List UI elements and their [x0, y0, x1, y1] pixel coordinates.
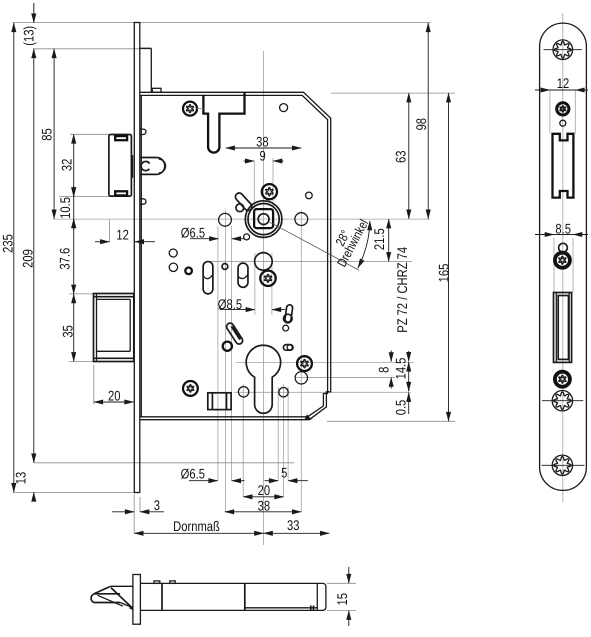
svg-text:8.5: 8.5 — [555, 221, 571, 237]
svg-text:32: 32 — [59, 159, 75, 172]
svg-text:98: 98 — [413, 118, 429, 131]
svg-text:37.6: 37.6 — [57, 248, 73, 270]
svg-text:20: 20 — [258, 482, 271, 498]
svg-text:14.5: 14.5 — [393, 357, 409, 379]
svg-text:(13): (13) — [20, 26, 36, 46]
svg-text:35: 35 — [60, 325, 76, 338]
svg-text:12: 12 — [557, 75, 570, 91]
svg-text:209: 209 — [20, 249, 36, 268]
svg-text:38: 38 — [258, 498, 271, 514]
svg-text:3: 3 — [154, 497, 160, 513]
svg-text:13: 13 — [12, 472, 28, 485]
svg-text:235: 235 — [0, 234, 16, 253]
svg-text:12: 12 — [116, 226, 129, 242]
svg-text:63: 63 — [393, 150, 409, 163]
svg-text:Ø6.5: Ø6.5 — [181, 466, 205, 482]
svg-text:10.5: 10.5 — [57, 197, 73, 219]
svg-text:0.5: 0.5 — [392, 400, 408, 416]
svg-text:8: 8 — [376, 367, 392, 373]
svg-text:5: 5 — [281, 465, 287, 481]
svg-text:33: 33 — [287, 517, 300, 533]
svg-text:9: 9 — [259, 147, 265, 163]
svg-text:Ø6.5: Ø6.5 — [181, 225, 205, 241]
svg-text:15: 15 — [334, 593, 350, 606]
svg-text:21.5: 21.5 — [371, 228, 387, 250]
svg-text:PZ 72 / CHRZ 74: PZ 72 / CHRZ 74 — [394, 247, 410, 333]
svg-text:Dornmaß: Dornmaß — [173, 518, 220, 534]
svg-text:85: 85 — [39, 128, 55, 141]
svg-text:165: 165 — [435, 263, 451, 282]
svg-text:20: 20 — [108, 388, 121, 404]
